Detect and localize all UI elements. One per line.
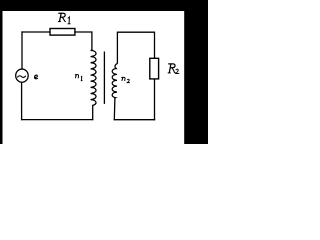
wire: secondary top bbox=[117, 31, 154, 33]
label R2 bbox=[168, 64, 176, 73]
wire: secondary coil bottom lead bbox=[113, 98, 116, 120]
label n2 bbox=[121, 77, 129, 82]
label n1 bbox=[75, 75, 83, 81]
resistor R1 bbox=[50, 29, 75, 36]
wire: secondary coil top lead bbox=[116, 32, 118, 64]
wire: primary left vertical lower bbox=[21, 83, 23, 121]
label R1 bbox=[58, 13, 66, 21]
resistor R2 bbox=[150, 58, 159, 79]
wire: primary left vertical upper bbox=[21, 31, 23, 68]
wire: primary top right segment bbox=[75, 31, 92, 33]
AC source e bbox=[16, 69, 29, 82]
right black border band bbox=[184, 0, 208, 144]
secondary winding coil bbox=[112, 64, 117, 99]
wire: secondary bottom bbox=[114, 119, 156, 121]
wire: primary top left segment bbox=[21, 31, 49, 33]
wire: primary bottom bbox=[21, 119, 93, 121]
wire: primary coil bottom lead bbox=[92, 105, 94, 120]
transformer core line bbox=[103, 52, 105, 104]
left frame line bbox=[0, 0, 3, 144]
top black border strip bbox=[0, 0, 208, 11]
wire: R2 top lead bbox=[154, 32, 156, 59]
primary winding coil bbox=[91, 50, 96, 106]
wire: R2 bottom lead bbox=[154, 79, 156, 120]
wire: primary coil top lead bbox=[91, 31, 93, 50]
label e bbox=[35, 75, 38, 79]
